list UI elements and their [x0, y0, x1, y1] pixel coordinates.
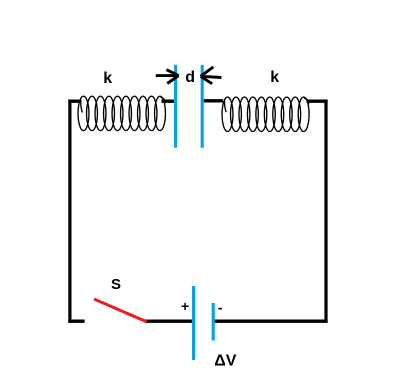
wire right plate to coil: [204, 99, 223, 102]
arrow right (points left at plate): [201, 67, 222, 84]
svg-text:S: S: [111, 276, 121, 293]
svg-text:ΔV: ΔV: [214, 353, 237, 370]
svg-text:d: d: [185, 69, 195, 86]
spring k left coil: [78, 96, 165, 130]
battery plate short -: [212, 303, 215, 341]
svg-text:k: k: [103, 70, 112, 87]
wire right vertical: [324, 100, 327, 323]
wire bottom middle: [145, 320, 192, 323]
wire top-left horizontal: [68, 99, 81, 102]
arrow left (points right at plate): [156, 70, 179, 84]
svg-text:-: -: [218, 300, 223, 316]
spring k right coil: [222, 97, 309, 131]
wire coil to left plate: [162, 99, 175, 102]
capacitor plate left: [174, 65, 177, 148]
switch S blade (red): [94, 299, 147, 322]
wire bottom right: [214, 320, 327, 323]
wire left vertical: [68, 100, 71, 323]
svg-text:k: k: [270, 69, 279, 86]
svg-text:+: +: [181, 298, 189, 314]
wire bottom left stub: [68, 320, 84, 323]
battery plate long +: [192, 286, 195, 360]
capacitor plate right: [201, 65, 204, 148]
wire coil to top-right corner: [307, 99, 328, 102]
